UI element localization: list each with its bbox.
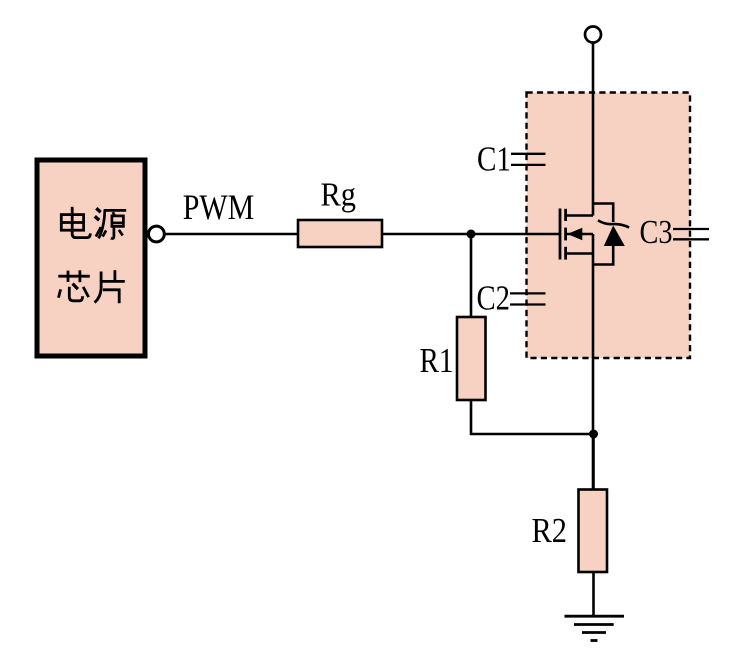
wire R1 bottom (471, 400, 594, 434)
capacitor C1 (511, 154, 546, 165)
body diode cathode curve (598, 220, 629, 227)
wire R2 to ground (592, 572, 595, 616)
svg-text:R2: R2 (532, 511, 568, 550)
wire PWM to Rg (166, 233, 299, 236)
resistor R1 (457, 317, 486, 400)
transistor Q1 channel segments (564, 209, 567, 260)
transistor Q1 body stub with arrow (566, 233, 593, 236)
power chip box U1 (37, 160, 145, 356)
transistor Q1 source stub (566, 252, 593, 255)
resistor Rg (298, 220, 382, 247)
capacitor C2 (510, 293, 546, 304)
capacitor C3 (673, 229, 709, 239)
label 源 (hand drawn) (95, 208, 126, 238)
transistor Q1 gate bar (559, 209, 562, 260)
wire junction B to R2 (592, 434, 595, 490)
label 芯 (hand drawn) (58, 270, 90, 301)
svg-text:C3: C3 (640, 214, 673, 251)
svg-text:C2: C2 (477, 279, 511, 318)
svg-text:PWM: PWM (183, 187, 255, 227)
node junction A (467, 230, 476, 239)
terminal PWM output circle (149, 226, 165, 242)
svg-text:C1: C1 (477, 140, 511, 179)
svg-text:Rg: Rg (321, 177, 357, 214)
wire diode anode jog to source (593, 246, 613, 265)
svg-text:R1: R1 (420, 341, 454, 380)
resistor R2 (579, 490, 608, 573)
wire junction A down to R1 (470, 234, 473, 317)
ground (565, 616, 625, 640)
label 电 (hand drawn) (61, 207, 90, 238)
label 片 (hand drawn) (95, 270, 125, 303)
wire drain vertical (592, 43, 595, 216)
wire Rg to gate (382, 233, 560, 236)
wire source vertical (592, 234, 595, 490)
node junction B (589, 430, 598, 439)
body diode D1 triangle (604, 226, 625, 247)
MOSFET module dashed box (527, 93, 691, 359)
wire drain jog to body diode (593, 204, 613, 223)
terminal drain supply circle (585, 27, 601, 43)
transistor Q1 drain stub (566, 214, 593, 217)
